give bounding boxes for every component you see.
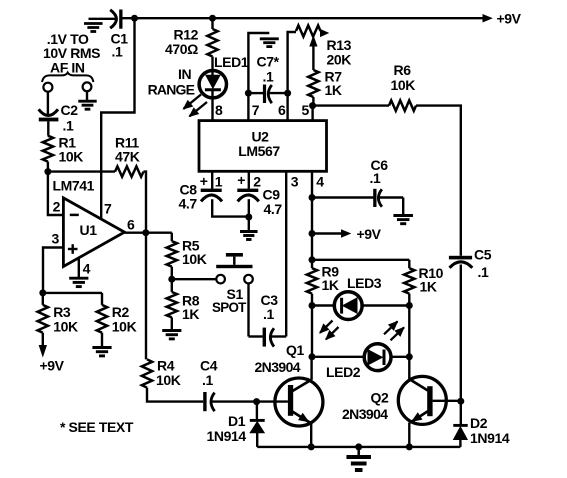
svg-text:10K: 10K xyxy=(53,319,78,335)
svg-text:20K: 20K xyxy=(327,52,352,68)
svg-text:10K: 10K xyxy=(112,319,137,335)
svg-text:4: 4 xyxy=(316,174,324,190)
svg-text:1K: 1K xyxy=(420,279,437,295)
svg-text:10K: 10K xyxy=(59,149,84,165)
svg-text:7: 7 xyxy=(104,201,112,217)
svg-text:LED1: LED1 xyxy=(214,54,249,70)
svg-text:Q1: Q1 xyxy=(286,342,304,358)
svg-text:4.7: 4.7 xyxy=(264,201,283,217)
svg-text:.1: .1 xyxy=(263,69,274,85)
svg-text:LM567: LM567 xyxy=(238,143,280,159)
svg-text:4: 4 xyxy=(83,260,91,276)
svg-text:1K: 1K xyxy=(182,306,199,322)
svg-text:RANGE: RANGE xyxy=(148,82,195,98)
svg-text:LED2: LED2 xyxy=(326,364,361,380)
svg-text:1: 1 xyxy=(215,174,223,190)
svg-text:10K: 10K xyxy=(156,372,181,388)
svg-text:U1: U1 xyxy=(80,222,98,238)
svg-text:1K: 1K xyxy=(325,82,342,98)
svg-text:6: 6 xyxy=(278,102,286,118)
svg-text:1N914: 1N914 xyxy=(470,430,510,446)
svg-text:4.7: 4.7 xyxy=(179,196,198,212)
svg-text:5: 5 xyxy=(302,102,310,118)
svg-text:+: + xyxy=(200,173,208,189)
svg-text:10K: 10K xyxy=(182,251,207,267)
svg-text:D1: D1 xyxy=(228,413,246,429)
svg-text:10K: 10K xyxy=(391,77,416,93)
svg-text:2N3904: 2N3904 xyxy=(255,359,301,375)
svg-text:C2: C2 xyxy=(61,102,79,118)
svg-text:.1: .1 xyxy=(370,170,381,186)
svg-text:47K: 47K xyxy=(115,149,140,165)
svg-text:1K: 1K xyxy=(322,277,339,293)
svg-text:Q2: Q2 xyxy=(371,390,389,406)
svg-text:IN: IN xyxy=(178,66,191,82)
svg-text:3: 3 xyxy=(291,174,299,190)
svg-text:D2: D2 xyxy=(470,415,488,431)
svg-text:6: 6 xyxy=(127,217,135,233)
svg-text:.1: .1 xyxy=(112,44,123,60)
svg-text:C5: C5 xyxy=(474,247,492,263)
svg-text:2N3904: 2N3904 xyxy=(342,406,388,422)
svg-text:.1: .1 xyxy=(263,306,274,322)
svg-text:.1: .1 xyxy=(478,264,489,280)
svg-text:+9V: +9V xyxy=(357,226,382,242)
svg-text:.1: .1 xyxy=(63,118,74,134)
svg-text:2: 2 xyxy=(253,174,261,190)
svg-text:1N914: 1N914 xyxy=(207,428,247,444)
svg-text:8: 8 xyxy=(215,102,223,118)
svg-text:.1: .1 xyxy=(202,372,213,388)
svg-text:3: 3 xyxy=(52,231,60,247)
svg-text:+9V: +9V xyxy=(40,358,65,374)
svg-text:R6: R6 xyxy=(394,62,412,78)
svg-text:+: + xyxy=(237,172,245,188)
svg-text:470Ω: 470Ω xyxy=(165,41,198,57)
svg-text:C7*: C7* xyxy=(257,54,280,70)
svg-text:* SEE TEXT: * SEE TEXT xyxy=(60,419,134,435)
svg-text:+9V: +9V xyxy=(497,11,522,27)
svg-text:LM741: LM741 xyxy=(53,178,95,194)
svg-text:SPOT: SPOT xyxy=(212,300,247,315)
svg-text:7: 7 xyxy=(252,102,260,118)
svg-text:LED3: LED3 xyxy=(347,275,382,291)
svg-text:2: 2 xyxy=(53,199,61,215)
